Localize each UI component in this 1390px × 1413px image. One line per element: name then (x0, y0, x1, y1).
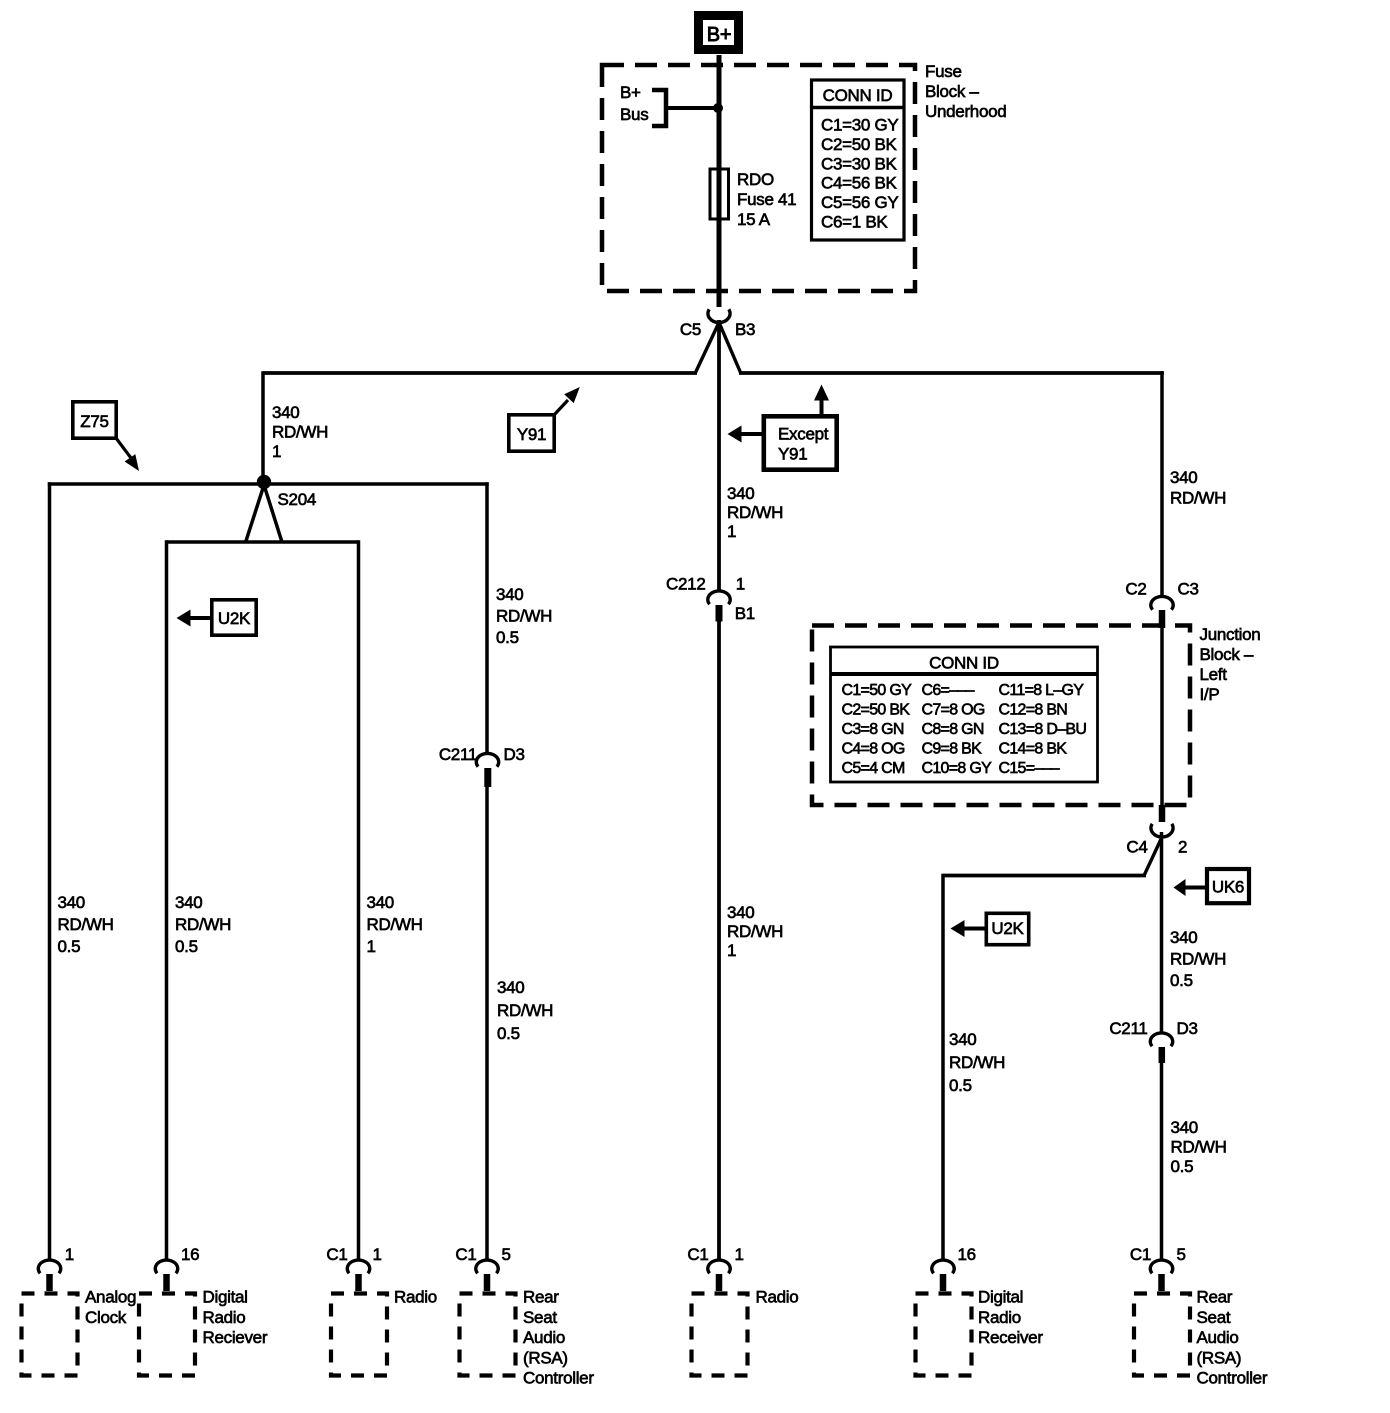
svg-text:CONN ID: CONN ID (929, 654, 999, 673)
svg-text:RD/WH: RD/WH (727, 503, 783, 522)
wire center from C5 down (717, 320, 721, 592)
svg-text:Receiver: Receiver (978, 1328, 1043, 1347)
svg-text:1: 1 (373, 1245, 382, 1264)
svg-text:0.5: 0.5 (1170, 971, 1193, 990)
svg-text:U2K: U2K (991, 919, 1024, 938)
svg-text:C3=30 BK: C3=30 BK (821, 154, 898, 173)
svg-text:1: 1 (727, 522, 736, 541)
svg-text:RD/WH: RD/WH (175, 915, 231, 934)
svg-text:C12=8 BN: C12=8 BN (999, 702, 1068, 719)
wire down to S204 (261, 371, 265, 478)
power feed B+ symbol (699, 16, 739, 50)
svg-text:C2=50 BK: C2=50 BK (842, 702, 911, 719)
connector radio center cup (708, 1260, 730, 1291)
svg-text:15 A: 15 A (737, 210, 771, 229)
bus wire S204 main (48, 482, 489, 486)
svg-text:C8=8 GN: C8=8 GN (922, 721, 984, 738)
svg-text:0.5: 0.5 (949, 1076, 972, 1095)
connector C2 C3 (1151, 596, 1173, 628)
svg-text:Left: Left (1200, 665, 1228, 684)
label pin 1 (radio left) (373, 1245, 382, 1264)
svg-text:5: 5 (502, 1245, 511, 1264)
bus wire S204 lower (167, 540, 359, 544)
label 340 RD/WH 0.5 (RSA right) (1171, 1118, 1227, 1176)
svg-text:B3: B3 (735, 320, 755, 339)
svg-text:C4=8 OG: C4=8 OG (842, 741, 905, 758)
svg-text:UK6: UK6 (1212, 878, 1244, 897)
svg-text:RD/WH: RD/WH (727, 922, 783, 941)
svg-text:1: 1 (65, 1245, 74, 1264)
svg-text:Y91: Y91 (778, 445, 807, 464)
svg-text:Fuse 41: Fuse 41 (737, 190, 796, 209)
Except Y91 box (764, 416, 837, 469)
svg-text:Block –: Block – (925, 82, 979, 101)
svg-text:Underhood: Underhood (925, 102, 1006, 121)
svg-text:Radio: Radio (756, 1288, 799, 1307)
svg-text:5: 5 (1177, 1245, 1186, 1264)
svg-text:RD/WH: RD/WH (497, 1001, 553, 1020)
svg-text:Rear: Rear (523, 1288, 559, 1307)
U2K arrow left (177, 610, 213, 627)
svg-text:RD/WH: RD/WH (1170, 489, 1226, 508)
label pin 16 (digital radio receiver right) (958, 1245, 976, 1264)
wire right down to C2 (1160, 371, 1164, 597)
wire right down from C4 (1160, 832, 1164, 1034)
component box radio left (331, 1294, 387, 1376)
label 340 RD/WH 0.5 (right C4) (1170, 928, 1226, 990)
S204 V leg left (246, 485, 264, 542)
label radio center (756, 1288, 799, 1307)
svg-text:U2K: U2K (218, 609, 251, 628)
label pin 2 C4 (1178, 838, 1187, 857)
svg-text:D3: D3 (1177, 1019, 1198, 1038)
svg-text:0.5: 0.5 (497, 1024, 520, 1043)
svg-text:Y91: Y91 (517, 425, 546, 444)
label RDO Fuse 41 15 A (737, 170, 796, 229)
UK6 box (1207, 869, 1249, 903)
U2K box right (986, 913, 1028, 944)
connector analog clock cup (38, 1260, 60, 1291)
label 340 RD/WH 0.5 (digital radio right) (949, 1030, 1005, 1095)
svg-text:C3=8 GN: C3=8 GN (842, 721, 904, 738)
wire to RSA controller right (1160, 1063, 1164, 1261)
svg-text:Audio: Audio (523, 1328, 565, 1347)
connector digital radio reciever left cup (155, 1260, 177, 1291)
connector radio left cup (347, 1260, 369, 1291)
S204 V leg right (264, 485, 282, 542)
label B3 (735, 320, 755, 339)
connector C212 B1 (708, 591, 730, 622)
svg-text:340: 340 (272, 403, 299, 422)
label C211 left (439, 745, 477, 764)
svg-text:(RSA): (RSA) (523, 1348, 568, 1367)
svg-text:Rear: Rear (1197, 1288, 1233, 1307)
svg-text:Junction: Junction (1200, 625, 1261, 644)
label radio left (394, 1288, 437, 1307)
label 340 RD/WH (right upper) (1170, 468, 1226, 508)
label C1 (RSA controller left) (455, 1245, 476, 1264)
connector C5 B3 cup with splice (696, 309, 741, 372)
svg-text:2: 2 (1178, 838, 1187, 857)
svg-text:340: 340 (949, 1030, 976, 1049)
svg-text:S204: S204 (278, 490, 317, 509)
svg-text:B+: B+ (707, 24, 731, 46)
svg-text:Analog: Analog (85, 1288, 136, 1307)
svg-text:C9=8 BK: C9=8 BK (922, 741, 983, 758)
CONN ID table fuse block (812, 80, 905, 240)
svg-text:Except: Except (778, 425, 829, 444)
label 340 RD/WH 1 (center upper) (727, 484, 783, 541)
svg-text:C212: C212 (666, 575, 705, 594)
connector C211 D3 right (1150, 1033, 1172, 1063)
svg-text:C1: C1 (687, 1245, 708, 1264)
svg-text:C1: C1 (455, 1245, 476, 1264)
svg-text:340: 340 (727, 484, 754, 503)
component box analog clock (22, 1294, 78, 1376)
svg-text:1: 1 (736, 575, 745, 594)
wire B+ bus to feed (664, 106, 719, 110)
label digital radio reciever left (203, 1288, 268, 1348)
svg-text:RD/WH: RD/WH (1171, 1138, 1227, 1157)
wire to RSA controller left upper (485, 482, 489, 755)
fuse block underhood dashed box (602, 65, 915, 291)
label C1 (radio center) (687, 1245, 708, 1264)
svg-text:340: 340 (1170, 928, 1197, 947)
svg-text:Digital: Digital (978, 1288, 1023, 1307)
CONN ID table junction block (831, 647, 1098, 782)
svg-text:Controller: Controller (1197, 1369, 1268, 1388)
wire B+ feed down to fuse and connector C5 (717, 55, 722, 307)
B+ bus bar (620, 83, 666, 126)
svg-text:0.5: 0.5 (1171, 1157, 1194, 1176)
svg-text:16: 16 (181, 1245, 199, 1264)
label B1 (735, 604, 755, 623)
label pin 5 (RSA controller left) (502, 1245, 511, 1264)
svg-text:Radio: Radio (203, 1308, 246, 1327)
wire to radio left (357, 540, 361, 1261)
component box RSA controller right (1134, 1294, 1190, 1376)
svg-text:CONN ID: CONN ID (823, 86, 893, 105)
UK6 arrow (1174, 879, 1208, 896)
svg-text:340: 340 (1171, 1118, 1198, 1137)
bus wire right of C5 (739, 371, 1164, 375)
svg-text:Reciever: Reciever (203, 1328, 268, 1347)
wire to digital radio right (941, 874, 945, 1261)
svg-text:0.5: 0.5 (58, 937, 81, 956)
svg-text:1: 1 (272, 442, 281, 461)
svg-text:Bus: Bus (620, 105, 648, 124)
svg-text:Digital: Digital (203, 1288, 248, 1307)
label pin 1 (analog clock) (65, 1245, 74, 1264)
svg-text:Seat: Seat (523, 1308, 557, 1327)
label C1 (radio left) (326, 1245, 347, 1264)
U2K box left (212, 600, 256, 635)
svg-text:Seat: Seat (1197, 1308, 1231, 1327)
svg-text:0.5: 0.5 (175, 937, 198, 956)
wire to RSA controller left lower (485, 787, 489, 1261)
label junction block left IP (1200, 625, 1261, 704)
svg-text:C211: C211 (1109, 1019, 1147, 1038)
label 340 RD/WH 0.5 (digital radio left) (175, 893, 231, 956)
svg-text:C2: C2 (1125, 580, 1146, 599)
label S204 (278, 490, 317, 509)
connector digital radio receiver right cup (932, 1260, 954, 1291)
Y91 box (509, 415, 554, 451)
label 340 RD/WH 0.5 (analog clock) (58, 893, 114, 956)
Y91 arrow (554, 387, 580, 415)
label 340 RD/WH 1 (center lower) (727, 903, 783, 960)
svg-text:340: 340 (58, 893, 85, 912)
svg-text:Radio: Radio (978, 1308, 1021, 1327)
svg-text:16: 16 (958, 1245, 976, 1264)
junction block left IP dashed box (812, 626, 1190, 806)
svg-text:C5=56 GY: C5=56 GY (821, 193, 898, 212)
svg-text:340: 340 (1170, 468, 1197, 487)
label pin 1 C212 (736, 575, 745, 594)
svg-text:RD/WH: RD/WH (496, 607, 552, 626)
junction dot B+ bus (713, 103, 723, 113)
svg-text:C1: C1 (1130, 1245, 1151, 1264)
svg-text:(RSA): (RSA) (1197, 1348, 1242, 1367)
svg-text:B1: B1 (735, 604, 755, 623)
connector C211 D3 left (476, 753, 498, 787)
label RSA controller right (1197, 1288, 1268, 1388)
svg-text:C13=8 D–BU: C13=8 D–BU (999, 721, 1087, 738)
label C3 (1178, 580, 1199, 599)
connector C4 2 cup with splice (1145, 824, 1174, 875)
connector C4 pin stub (1159, 805, 1166, 822)
svg-text:Controller: Controller (523, 1369, 594, 1388)
label C2 (1125, 580, 1146, 599)
label C4 (1126, 838, 1147, 857)
svg-text:C3: C3 (1178, 580, 1199, 599)
bus wire left of C5 (263, 371, 697, 375)
fuse RDO 41 15A (710, 169, 729, 219)
Z75 box (73, 402, 116, 438)
svg-text:B+: B+ (620, 83, 641, 102)
svg-text:340: 340 (727, 903, 754, 922)
bus wire to digital radio right (943, 874, 1146, 878)
svg-text:C2=50 BK: C2=50 BK (821, 135, 898, 154)
svg-text:Audio: Audio (1197, 1328, 1239, 1347)
component box radio center (692, 1294, 748, 1376)
svg-text:C15=–––: C15=––– (999, 760, 1060, 777)
svg-text:C6=–––: C6=––– (922, 682, 975, 699)
svg-text:C211: C211 (439, 745, 477, 764)
svg-text:C4: C4 (1126, 838, 1147, 857)
wire to analog clock (48, 482, 52, 1261)
svg-text:C11=8 L–GY: C11=8 L–GY (999, 682, 1085, 699)
label pin 1 (radio center) (735, 1245, 744, 1264)
svg-text:Clock: Clock (85, 1308, 127, 1327)
svg-text:Radio: Radio (394, 1288, 437, 1307)
svg-text:C1=50 GY: C1=50 GY (842, 682, 913, 699)
label 340 RD/WH 1 (radio left) (367, 893, 423, 956)
wire to digital radio reciever left (165, 540, 169, 1261)
svg-text:1: 1 (367, 937, 376, 956)
svg-text:Fuse: Fuse (925, 62, 962, 81)
svg-text:RD/WH: RD/WH (367, 915, 423, 934)
label fuse block underhood (925, 62, 1006, 121)
component box RSA controller left (460, 1294, 516, 1376)
Z75 arrow (116, 438, 139, 471)
label 340 RD/WH 1 (S204 feed) (272, 403, 328, 461)
label C211 right (1109, 1019, 1147, 1038)
wire center to radio (717, 621, 721, 1261)
splice S204 dot (257, 475, 271, 489)
svg-text:1: 1 (727, 941, 736, 960)
svg-text:C5: C5 (680, 320, 701, 339)
label 340 RD/WH 0.5 (RSA left upper) (496, 585, 552, 647)
svg-text:C5=4 CM: C5=4 CM (842, 760, 905, 777)
label C5 (680, 320, 701, 339)
svg-text:340: 340 (496, 585, 523, 604)
svg-text:C7=8 OG: C7=8 OG (922, 702, 985, 719)
svg-text:D3: D3 (504, 745, 525, 764)
label C212 (666, 575, 705, 594)
label digital radio receiver right (978, 1288, 1043, 1348)
connector RSA controller left cup (476, 1260, 498, 1291)
svg-text:C10=8 GY: C10=8 GY (922, 760, 993, 777)
U2K arrow right (951, 920, 987, 937)
svg-text:RD/WH: RD/WH (58, 915, 114, 934)
svg-text:340: 340 (175, 893, 202, 912)
label analog clock (85, 1288, 136, 1327)
svg-text:1: 1 (735, 1245, 744, 1264)
label RSA controller left (523, 1288, 594, 1388)
component box digital radio reciever left (139, 1294, 195, 1376)
svg-text:Block –: Block – (1200, 645, 1254, 664)
svg-text:Z75: Z75 (80, 412, 108, 431)
component box digital radio receiver right (916, 1294, 972, 1376)
label pin 5 (RSA controller right) (1177, 1245, 1186, 1264)
label 340 RD/WH 0.5 (RSA left lower) (497, 978, 553, 1043)
svg-text:RDO: RDO (737, 170, 774, 189)
wire through junction block (1160, 627, 1164, 806)
svg-text:C1=30 GY: C1=30 GY (821, 116, 898, 135)
svg-text:340: 340 (367, 893, 394, 912)
svg-text:RD/WH: RD/WH (949, 1053, 1005, 1072)
label C1 (RSA controller right) (1130, 1245, 1151, 1264)
Except Y91 arrow left (728, 426, 763, 443)
svg-text:RD/WH: RD/WH (1170, 950, 1226, 969)
svg-text:340: 340 (497, 978, 524, 997)
svg-text:0.5: 0.5 (496, 628, 519, 647)
svg-text:C6=1 BK: C6=1 BK (821, 213, 888, 232)
svg-text:C4=56 BK: C4=56 BK (821, 174, 898, 193)
svg-text:I/P: I/P (1200, 685, 1220, 704)
svg-text:RD/WH: RD/WH (272, 423, 328, 442)
label D3 right (1177, 1019, 1198, 1038)
label D3 left (504, 745, 525, 764)
svg-text:C14=8 BK: C14=8 BK (999, 741, 1068, 758)
label pin 16 (digital radio reciever left) (181, 1245, 199, 1264)
Except Y91 arrow up (814, 385, 829, 417)
svg-text:C1: C1 (326, 1245, 347, 1264)
connector RSA controller right cup (1150, 1260, 1172, 1291)
